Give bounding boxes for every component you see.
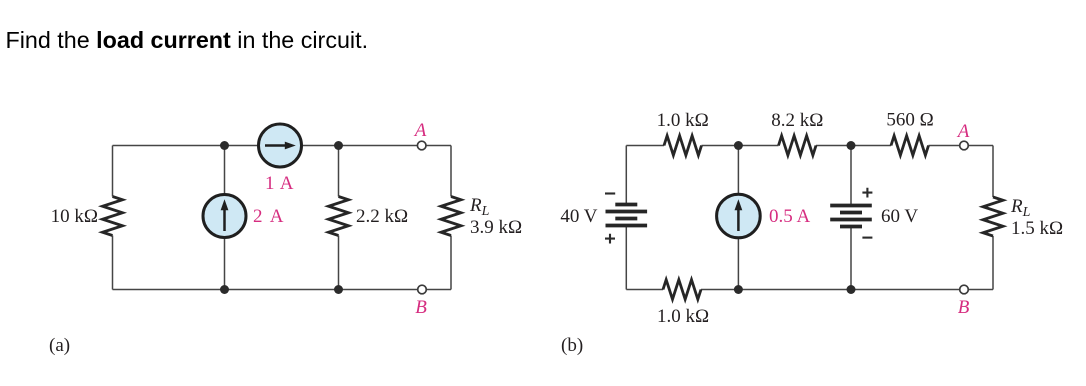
svg-text:B: B bbox=[958, 297, 970, 318]
svg-text:2 A: 2 A bbox=[253, 206, 285, 227]
svg-text:1 A: 1 A bbox=[265, 173, 294, 194]
terminal B (a) bbox=[418, 285, 427, 294]
battery 60 V (b) bbox=[830, 206, 872, 227]
wire (b) 60V branch leads bbox=[850, 146, 852, 290]
resistor 1.0 kOhm top (b) bbox=[664, 136, 702, 156]
junction bottom of 2.2k branch (a) bbox=[334, 285, 343, 294]
svg-text:60 V: 60 V bbox=[881, 206, 918, 227]
battery 40 V (b) bbox=[606, 205, 648, 226]
junction top of 2.2k branch (a) bbox=[334, 141, 343, 150]
terminal A (b) bbox=[960, 141, 969, 150]
svg-text:10 kΩ: 10 kΩ bbox=[51, 206, 98, 227]
resistor 8.2 kOhm (b) bbox=[779, 136, 817, 156]
wire (a) right branch leads bbox=[450, 146, 452, 290]
resistor 1.0 kOhm bottom (b) bbox=[663, 280, 701, 300]
svg-text:1.0 kΩ: 1.0 kΩ bbox=[657, 306, 709, 327]
junction top of 2A source branch (a) bbox=[220, 141, 229, 150]
svg-text:Find the load current in the c: Find the load current in the circuit. bbox=[6, 27, 369, 53]
svg-text:B: B bbox=[415, 297, 427, 318]
resistor 2.2 kOhm (a) bbox=[329, 197, 349, 236]
svg-text:3.9 kΩ: 3.9 kΩ bbox=[470, 217, 522, 238]
junction bottom of 60V branch (b) bbox=[847, 285, 856, 294]
junction top of current source branch (b) bbox=[734, 141, 743, 150]
current source 2 A (a) bbox=[203, 195, 246, 238]
junction top of 60V branch (b) bbox=[847, 141, 856, 150]
svg-text:A: A bbox=[956, 121, 970, 142]
current source 0.5 A (b) bbox=[717, 194, 761, 238]
terminal A (a) bbox=[417, 141, 426, 150]
wire (b) current source branch bbox=[737, 146, 739, 290]
terminal B (b) bbox=[960, 285, 969, 294]
wire (b) right branch leads bbox=[992, 146, 994, 290]
wire (a) 2.2k branch leads bbox=[338, 146, 340, 290]
svg-text:8.2 kΩ: 8.2 kΩ bbox=[771, 110, 823, 131]
svg-text:A: A bbox=[413, 120, 427, 141]
svg-text:(a): (a) bbox=[49, 335, 70, 356]
svg-text:(b): (b) bbox=[561, 335, 583, 356]
wire (a) top bbox=[113, 145, 452, 147]
wire (b) 40V branch leads bbox=[625, 146, 627, 290]
resistor RL (b) bbox=[983, 197, 1003, 236]
wire (b) bottom segments bbox=[626, 289, 993, 291]
svg-text:560 Ω: 560 Ω bbox=[886, 110, 933, 131]
resistor 560 Ohm (b) bbox=[891, 136, 929, 156]
wire (a) left branch leads bbox=[112, 146, 114, 290]
svg-text:RL: RL bbox=[1010, 196, 1031, 220]
label plus 40V bbox=[605, 234, 615, 244]
label plus 60V bbox=[862, 188, 872, 198]
junction bottom of current source branch (b) bbox=[734, 285, 743, 294]
resistor 10 kOhm (a) bbox=[103, 197, 123, 236]
wire (a) 2A source branch bbox=[224, 146, 226, 290]
resistor RL (a) bbox=[441, 197, 461, 236]
svg-text:1.0 kΩ: 1.0 kΩ bbox=[657, 110, 709, 131]
svg-text:RL: RL bbox=[469, 195, 490, 219]
wire (a) bottom bbox=[113, 289, 452, 291]
svg-text:40 V: 40 V bbox=[560, 206, 597, 227]
wire (b) top segments bbox=[626, 145, 993, 147]
label minus 60V bbox=[862, 237, 872, 239]
label minus 40V bbox=[605, 192, 615, 194]
svg-text:0.5 A: 0.5 A bbox=[769, 206, 810, 227]
current source 1 A (a) bbox=[259, 124, 302, 167]
junction bottom of 2A source branch (a) bbox=[220, 285, 229, 294]
svg-text:1.5 kΩ: 1.5 kΩ bbox=[1011, 218, 1063, 239]
svg-text:2.2 kΩ: 2.2 kΩ bbox=[356, 206, 408, 227]
